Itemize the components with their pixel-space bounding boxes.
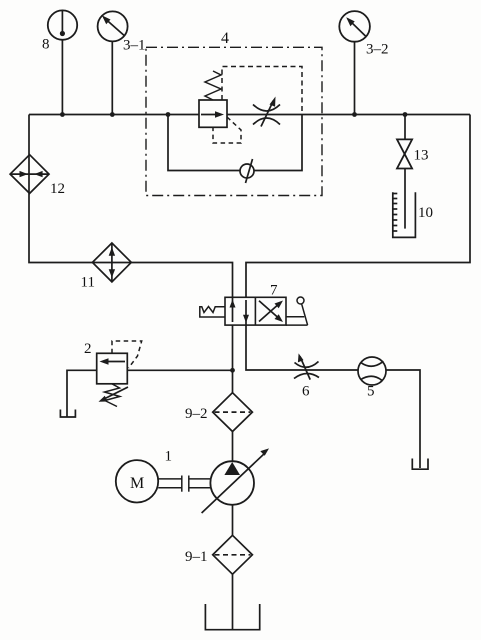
manual lever of valve 7: [286, 297, 308, 325]
filter 9-2 (diamond with dashed line): [213, 393, 253, 432]
shut-off valve 13 (bowtie): [397, 139, 412, 168]
throttle valve 6: [294, 353, 319, 379]
wire valve7 right path to throttle 6: [246, 325, 358, 370]
svg-text:2: 2: [84, 341, 92, 357]
wire left drop to return line: [29, 115, 233, 298]
main tank under 9-1: [205, 604, 259, 630]
svg-text:13: 13: [414, 148, 429, 164]
svg-text:7: 7: [270, 283, 278, 299]
node gauge 3-2 junction: [352, 112, 357, 117]
svg-text:9–2: 9–2: [185, 406, 208, 422]
wire 9-2 to pump: [232, 432, 234, 462]
wire gauge 3-1 stem: [111, 41, 113, 114]
flow meter 5: [358, 357, 386, 385]
wire 9-1 to tank: [232, 574, 234, 629]
heater 12 (diamond with inward arrows): [10, 155, 49, 194]
wire pump to 9-1: [232, 505, 234, 536]
svg-text:4: 4: [221, 30, 229, 47]
pilot dashed box of relief valve 4: [222, 67, 302, 115]
node junction relief-2 branch: [230, 368, 235, 373]
wire box4 bypass loop: [168, 115, 240, 171]
spring of relief valve 4: [205, 71, 221, 100]
boundary box 4 (dash-dot): [146, 47, 322, 195]
wire relief 2 to tank: [67, 370, 97, 417]
node box4 internal junction: [166, 112, 171, 117]
arrow inside relief valve 2: [100, 358, 126, 364]
coupling between motor and pump: [158, 476, 210, 492]
pilot dashed line of relief valve 2: [112, 341, 142, 368]
svg-text:1: 1: [165, 449, 173, 465]
spring of relief valve 2: [105, 384, 120, 407]
svg-text:8: 8: [42, 37, 50, 53]
wire gauge 3-2 stem: [354, 42, 356, 115]
wire flowmeter to tank: [386, 370, 420, 468]
pump (variable displacement): [202, 448, 269, 513]
svg-text:6: 6: [302, 384, 310, 400]
wire box4 bypass right: [254, 115, 302, 171]
svg-text:9–1: 9–1: [185, 549, 208, 565]
wire gauge 8 stem: [61, 40, 63, 115]
wire valve7 left path to pump branch: [232, 325, 234, 393]
svg-text:11: 11: [81, 275, 95, 291]
pressure gauge 8: [48, 10, 77, 39]
cooler 11 (diamond with outward arrows): [92, 243, 131, 282]
svg-text:3–2: 3–2: [366, 42, 389, 58]
svg-text:10: 10: [418, 205, 433, 221]
pressure gauge 3-2: [339, 11, 370, 42]
throttle valve inside box 4: [253, 97, 280, 127]
wire valve 13 branch: [404, 115, 406, 140]
wire valve 13 to beaker: [404, 169, 406, 229]
electric motor M: [116, 460, 158, 502]
adjusting arrow of relief valve 2: [99, 387, 129, 402]
tank at flow meter outlet: [412, 459, 428, 470]
wire relief-2 branch: [127, 369, 232, 371]
measuring beaker 10: [393, 192, 416, 237]
wire main supply line: [29, 114, 470, 116]
wire right loop down: [246, 115, 470, 298]
relief valve in box 4 (square): [199, 100, 227, 127]
svg-text:12: 12: [50, 181, 65, 197]
node gauge 8 junction: [60, 112, 65, 117]
spring return of valve 7: [200, 307, 225, 318]
svg-text:5: 5: [367, 384, 375, 400]
orifice (circle with diagonal) in box 4: [240, 159, 254, 183]
filter 9-1 (diamond with dashed line): [213, 535, 253, 574]
svg-text:3–1: 3–1: [123, 38, 146, 54]
node valve 13 junction: [403, 112, 408, 117]
valve 7 left position arrows: [230, 297, 250, 325]
pilot drain dashed path of relief valve 4: [213, 117, 241, 143]
arrow inside relief valve 4: [201, 111, 224, 117]
node gauge 3-1 junction: [110, 112, 115, 117]
directional valve 7 body: [225, 297, 286, 325]
tank of relief valve 2: [60, 410, 75, 418]
pressure gauge 3-1: [98, 11, 128, 41]
svg-text:M: M: [130, 475, 144, 492]
relief valve 2 square: [97, 353, 128, 384]
valve 7 right position crossed arrows: [259, 301, 283, 323]
